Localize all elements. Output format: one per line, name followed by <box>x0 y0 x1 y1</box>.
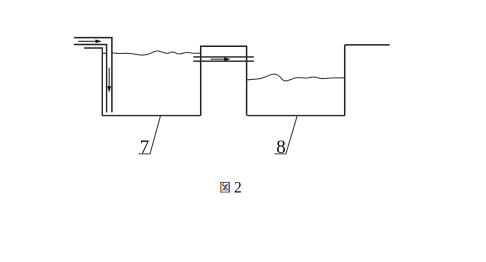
svg-text:8: 8 <box>276 137 286 158</box>
downward flow arrow in vertical pipe <box>108 68 111 92</box>
svg-text:2: 2 <box>234 180 242 197</box>
tank 7 left wall with top lip <box>84 48 102 116</box>
leader line for label 8 <box>274 116 297 154</box>
tank 7 water surface (wavy) <box>113 51 201 55</box>
middle channel box (right wall of tank 7, top, left wall of tank 8) <box>201 46 247 115</box>
tank 8 bottom <box>247 115 344 117</box>
inlet flow arrow <box>78 40 101 43</box>
channel flow arrow <box>211 58 231 61</box>
tank 7 bottom <box>102 115 201 117</box>
inlet pipe outer wall <box>74 38 112 113</box>
channel flow line upper <box>193 56 254 58</box>
tank 8 water surface (wavy) <box>247 74 344 81</box>
tank 8 right wall <box>344 45 346 116</box>
water level tick between wall and pipe <box>102 52 106 54</box>
svg-text:7: 7 <box>140 137 150 158</box>
inlet pipe inner wall <box>74 45 107 113</box>
channel flow line lower <box>193 60 254 62</box>
caption glyph 图 (drawn) <box>220 182 229 192</box>
top right rim line <box>345 44 390 46</box>
leader line for label 7 <box>139 116 161 154</box>
